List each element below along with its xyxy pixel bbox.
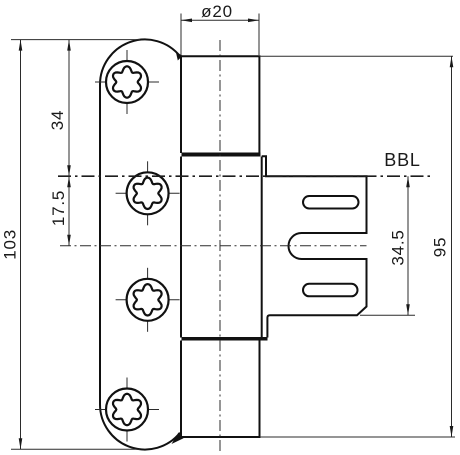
screw S3 bbox=[116, 268, 180, 332]
dim ø20 bbox=[180, 14, 182, 56]
weld joint bar bottom bbox=[182, 337, 268, 341]
dim 103 bbox=[11, 39, 140, 41]
svg-text:ø20: ø20 bbox=[201, 2, 233, 21]
screw S2 bbox=[116, 161, 180, 225]
dim 95 bbox=[259, 55, 453, 57]
BBL reference line bbox=[58, 175, 432, 177]
svg-text:17.5: 17.5 bbox=[49, 190, 68, 226]
svg-text:34: 34 bbox=[48, 110, 67, 131]
leaf-barrel junction top bbox=[176, 52, 183, 61]
dim 34 bbox=[68, 40, 70, 177]
plate center line bbox=[60, 245, 367, 247]
barrel centerline bbox=[219, 40, 221, 452]
svg-text:95: 95 bbox=[430, 237, 449, 258]
barrel middle section bbox=[181, 157, 262, 338]
screw S1 bbox=[95, 50, 159, 114]
weld joint bar top bbox=[182, 153, 261, 157]
hinge leaf plate bbox=[100, 39, 180, 449]
svg-text:BBL: BBL bbox=[384, 150, 420, 170]
frame slot lower bbox=[303, 284, 358, 297]
barrel upper section bbox=[181, 56, 259, 153]
leaf-barrel junction bottom bbox=[172, 433, 184, 445]
barrel lower section bbox=[181, 341, 260, 438]
screw S4 bbox=[95, 378, 159, 442]
frame part plate bbox=[262, 156, 367, 337]
frame slot upper bbox=[303, 196, 359, 209]
dim 17.5 bbox=[68, 176, 70, 246]
svg-text:34.5: 34.5 bbox=[389, 229, 408, 265]
svg-text:103: 103 bbox=[0, 229, 19, 260]
dim 34.5 bbox=[360, 314, 415, 316]
